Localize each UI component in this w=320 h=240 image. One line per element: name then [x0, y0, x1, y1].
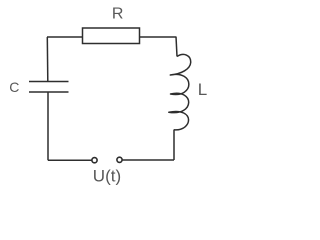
- wire bottom-right horizontal: [122, 159, 174, 161]
- switch terminal left: [92, 158, 97, 163]
- inductor L coil: [169, 54, 191, 129]
- switch terminal right: [117, 157, 122, 162]
- resistor R1 body: [83, 28, 140, 44]
- capacitor C bottom plate: [29, 91, 69, 93]
- wire bottom-left horizontal: [48, 159, 92, 161]
- svg-text:L: L: [198, 80, 207, 99]
- wire left vertical upper: [46, 37, 49, 82]
- wire left vertical lower: [47, 92, 49, 160]
- wire right vertical upper: [176, 37, 177, 57]
- svg-text:C: C: [9, 79, 19, 95]
- svg-text:U(t): U(t): [93, 167, 121, 186]
- wire top-right horizontal: [140, 36, 176, 38]
- svg-text:R: R: [112, 6, 124, 23]
- capacitor C top plate: [29, 81, 69, 83]
- wire top-left horizontal: [47, 36, 83, 38]
- wire right vertical lower: [173, 130, 175, 161]
